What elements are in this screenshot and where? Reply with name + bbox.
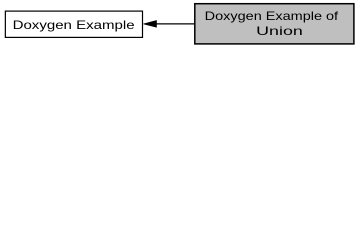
svg-text:Doxygen Example: Doxygen Example — [13, 18, 135, 32]
background — [0, 0, 359, 51]
node box: Doxygen Example — [5, 11, 142, 37]
svg-text:Doxygen Example of: Doxygen Example of — [205, 9, 339, 23]
svg-text:Union: Union — [256, 24, 303, 38]
node box: Doxygen Example of Union (current node, grey) — [195, 4, 354, 44]
edge wire — [156, 23, 195, 25]
edge arrowhead — [144, 21, 157, 28]
